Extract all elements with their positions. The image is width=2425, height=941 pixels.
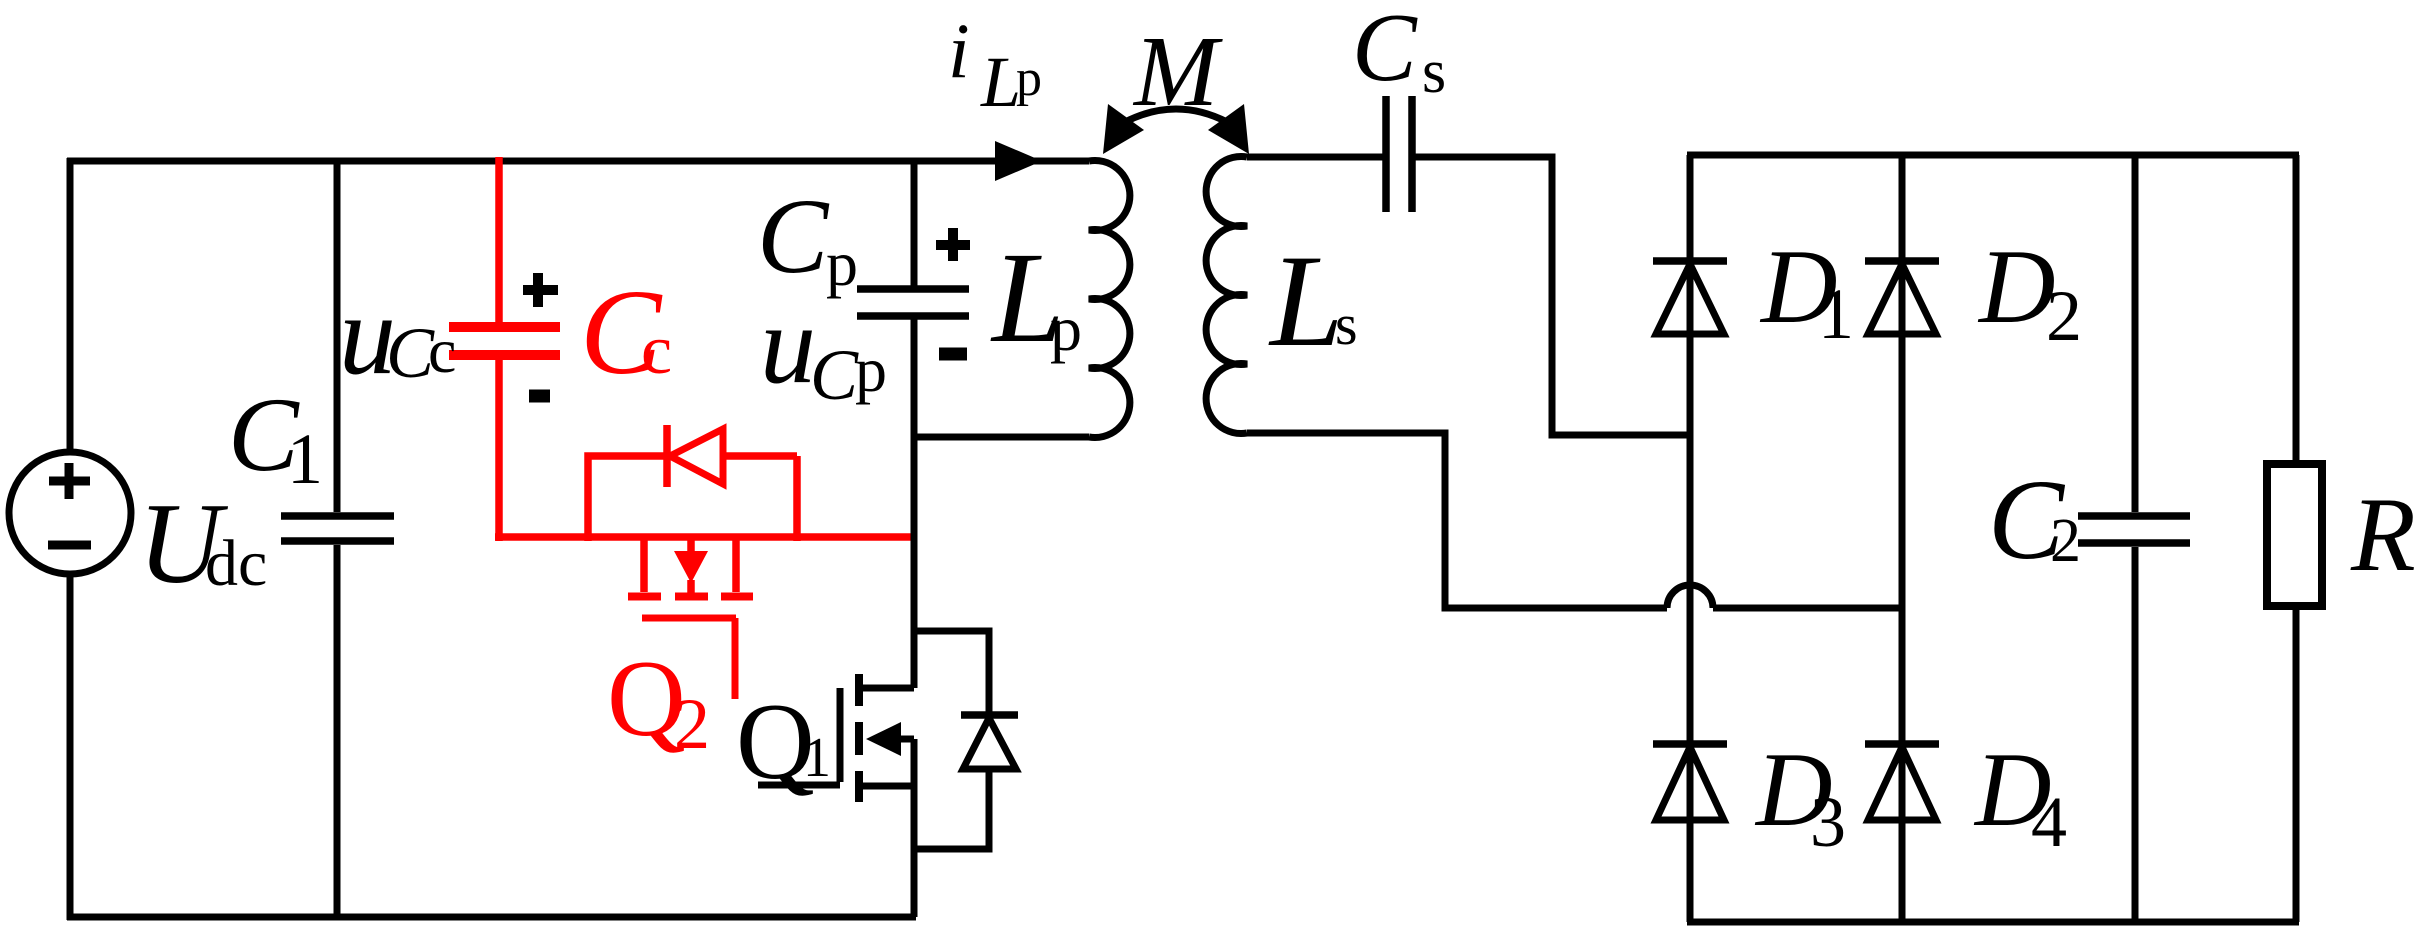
diode D3: [1653, 744, 1727, 820]
svg-text:s: s: [1422, 38, 1446, 106]
diode of Q2 (red antiparallel): [667, 425, 723, 487]
wire red horizontal to Q1 leg: [495, 533, 914, 541]
wire C1 vertical lower: [334, 545, 341, 917]
label Ls: [1268, 227, 1358, 374]
diode D1: [1653, 261, 1727, 334]
source minus mark: [48, 541, 91, 550]
label D2: [1977, 228, 2082, 356]
wire node B to D2 column: [1713, 605, 1902, 612]
svg-text:1: 1: [1818, 274, 1854, 354]
transistor Q2 channel bars: [628, 593, 753, 601]
label uCc: [339, 271, 456, 398]
transistor Q1 channel bars: [855, 674, 863, 802]
diode of Q1 (body): [961, 715, 1018, 769]
diode D4: [1865, 744, 1939, 820]
label Udc: [138, 480, 267, 608]
wire left vertical upper: [67, 158, 74, 452]
arrow iLp current: [995, 141, 1042, 181]
svg-text:2: 2: [674, 684, 710, 764]
wire top left rail: [67, 158, 1089, 165]
source plus mark: [49, 463, 90, 499]
svg-text:p: p: [826, 228, 858, 299]
transistor Q1 body arrow: [866, 722, 914, 756]
label Cc red: [580, 265, 672, 400]
wire red Cc bottom lead: [495, 359, 503, 541]
svg-text:4: 4: [2031, 782, 2067, 862]
svg-text:L: L: [980, 42, 1021, 122]
svg-text:i: i: [948, 7, 970, 94]
svg-text:s: s: [1335, 292, 1358, 357]
inductor Lp: [1089, 161, 1130, 438]
wire hop over D1 column: [1667, 585, 1713, 608]
wire R column lower: [2293, 606, 2300, 922]
wire mid vertical lower: [911, 739, 918, 917]
arrow M coupling arc: [1103, 104, 1249, 154]
wire Ls bottom to node B: [1247, 433, 1667, 608]
capacitor Cs: [1386, 96, 1412, 212]
svg-text:p: p: [1016, 50, 1042, 107]
label iLp: [948, 7, 1042, 122]
wire Cs to bridge node A: [1415, 157, 1690, 435]
wire Ls top to Cs: [1247, 154, 1383, 161]
label C2: [1988, 456, 2081, 583]
diode D2: [1865, 261, 1939, 334]
capacitor Cp: [857, 289, 969, 316]
svg-text:C: C: [1352, 0, 1418, 101]
label uCp: [760, 283, 887, 415]
label D3: [1754, 731, 1846, 862]
wire C1 vertical upper: [334, 158, 341, 512]
capacitor C2: [2078, 516, 2190, 543]
transistor Q1 gate: [758, 688, 840, 785]
wire D1-D3 column: [1687, 155, 1694, 922]
wire bridge bottom rail: [1687, 919, 2299, 926]
wire red diode loop left stub: [588, 456, 664, 541]
svg-text:1: 1: [803, 727, 831, 789]
wire body diode branch bottom: [914, 766, 989, 849]
svg-text:c: c: [641, 312, 672, 389]
wire mid vertical top: [911, 158, 918, 286]
svg-text:2: 2: [2050, 507, 2081, 575]
resistor R: [2267, 464, 2322, 606]
wire bottom left rail: [67, 914, 916, 921]
label plus of Cp: [936, 228, 970, 261]
capacitor Cc: [449, 327, 560, 355]
wire C2 column upper: [2132, 155, 2139, 512]
label minus of Cc: [529, 390, 550, 403]
svg-text:1: 1: [287, 419, 323, 499]
svg-text:dc: dc: [205, 527, 267, 600]
wire C2 column lower: [2132, 547, 2139, 922]
label plus of Cc: [523, 273, 558, 307]
svg-text:p: p: [855, 334, 887, 405]
label Q2 red: [607, 638, 710, 764]
transistor Q2 source stub: [732, 537, 740, 592]
source Udc circle: [9, 452, 131, 574]
svg-text:D: D: [1977, 228, 2056, 345]
svg-text:2: 2: [2046, 276, 2082, 356]
inductor Ls: [1206, 157, 1247, 434]
transistor Q2 drain stub: [640, 537, 648, 592]
svg-text:c: c: [428, 315, 456, 386]
svg-text:R: R: [2350, 476, 2416, 593]
wire red diode loop right stub: [723, 456, 797, 541]
label M: [1132, 15, 1223, 127]
label D4: [1973, 731, 2067, 862]
wire body diode branch top: [914, 631, 989, 712]
label R: [2350, 476, 2416, 593]
label C1: [228, 376, 323, 499]
transistor Q2 body arrow: [674, 535, 708, 594]
svg-text:3: 3: [1810, 782, 1846, 862]
svg-text:C: C: [757, 178, 830, 296]
transistor Q2 gate: [642, 618, 736, 699]
transistor Q1 source lead: [859, 783, 914, 790]
svg-text:p: p: [1050, 293, 1082, 364]
wire red Cc top lead: [495, 157, 503, 323]
capacitor C1: [281, 516, 394, 541]
label Q1: [736, 681, 831, 802]
svg-text:L: L: [1268, 227, 1343, 374]
transistor Q1 drain lead: [862, 685, 914, 692]
wire left vertical lower: [67, 574, 74, 920]
label D1: [1759, 228, 1854, 354]
svg-text:u: u: [760, 283, 816, 407]
label Lp: [990, 226, 1082, 370]
wire bridge top rail: [1687, 152, 2299, 159]
label Cp: [757, 178, 858, 299]
wire R column upper: [2293, 155, 2300, 464]
wire Lp bottom connection: [914, 434, 1089, 441]
label Cs: [1352, 0, 1446, 106]
label minus of Cp: [939, 348, 967, 361]
wire mid vertical below Cp: [911, 319, 918, 688]
svg-text:C: C: [810, 335, 859, 415]
wire D2-D4 column: [1899, 155, 1906, 922]
